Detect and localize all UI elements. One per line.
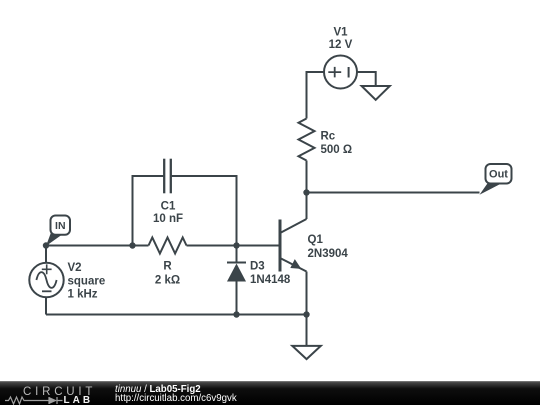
wire R to base — [187, 245, 281, 247]
svg-text:V2: V2 — [68, 262, 82, 274]
capacitor C1 — [164, 159, 171, 194]
node C1 left junction — [129, 242, 135, 248]
node emitter rail junction — [303, 311, 309, 317]
label V1 value — [329, 27, 353, 52]
transistor Q1 — [280, 219, 307, 272]
svg-text:12 V: 12 V — [329, 39, 353, 51]
wire C1 right branch — [171, 176, 237, 246]
svg-text:Out: Out — [489, 169, 508, 181]
svg-text:500 Ω: 500 Ω — [321, 144, 353, 156]
node collector junction — [303, 189, 309, 195]
svg-text:10 nF: 10 nF — [153, 213, 183, 225]
wire V2 bottom to rail — [45, 298, 47, 315]
svg-text:Rc: Rc — [321, 131, 336, 143]
wire junction down to D3 — [236, 246, 238, 263]
svg-text:LAB: LAB — [64, 395, 94, 405]
svg-text:Q1: Q1 — [308, 234, 324, 246]
voltage source V1 — [324, 56, 357, 89]
wire node down to Q1 collector — [306, 193, 308, 220]
svg-text:2 kΩ: 2 kΩ — [155, 275, 180, 287]
ground (V1) — [362, 86, 390, 100]
svg-text:1N4148: 1N4148 — [250, 274, 291, 286]
wire IN node to V2 — [45, 246, 47, 264]
svg-text:R: R — [163, 261, 172, 273]
node Out flag — [480, 164, 512, 195]
node IN flag — [46, 216, 70, 247]
wire bottom rail — [46, 314, 307, 316]
svg-text:V1: V1 — [333, 27, 348, 39]
node C1/D3 right junction — [233, 242, 239, 248]
wire V1 left lead to corner — [307, 71, 325, 73]
label D3 value — [250, 261, 291, 287]
wire emitter down — [306, 272, 308, 315]
wire corner down to Rc — [306, 71, 308, 119]
voltage source V2 — [29, 263, 63, 297]
svg-text:http://circuitlab.com/c6v9gvk: http://circuitlab.com/c6v9gvk — [115, 393, 237, 404]
wire rail to ground — [306, 315, 308, 346]
diode D3 — [227, 263, 246, 282]
svg-text:square: square — [68, 276, 106, 288]
label Rc value — [321, 131, 353, 157]
wire base line — [46, 245, 149, 247]
label V2 value — [68, 262, 106, 301]
svg-text:2N3904: 2N3904 — [308, 248, 349, 260]
label Q1 value — [308, 234, 349, 260]
svg-text:IN: IN — [55, 220, 66, 232]
node IN — [43, 242, 49, 248]
ground (emitter) — [292, 346, 321, 359]
svg-text:1 kHz: 1 kHz — [68, 289, 98, 301]
wire Rc bottom to collector node — [306, 161, 308, 193]
wire C1 left branch — [133, 176, 165, 246]
wire V1 right lead — [357, 72, 376, 86]
wire D3 down to bottom rail — [236, 282, 238, 315]
resistor Rc — [299, 119, 315, 161]
resistor R — [149, 238, 187, 254]
label R value — [155, 261, 180, 287]
logo squiggle — [5, 397, 63, 404]
label C1 value — [153, 201, 183, 226]
wire node to Out flag — [307, 192, 480, 194]
svg-text:D3: D3 — [250, 261, 265, 273]
node bottom rail junction — [233, 311, 239, 317]
svg-text:C1: C1 — [161, 201, 176, 213]
